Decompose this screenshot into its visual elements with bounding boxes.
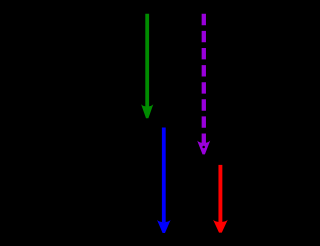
green solid down arrow [141, 14, 153, 118]
red solid down arrow [213, 165, 228, 233]
blue solid down arrow [157, 128, 171, 234]
purple dashed down arrow [197, 14, 210, 155]
